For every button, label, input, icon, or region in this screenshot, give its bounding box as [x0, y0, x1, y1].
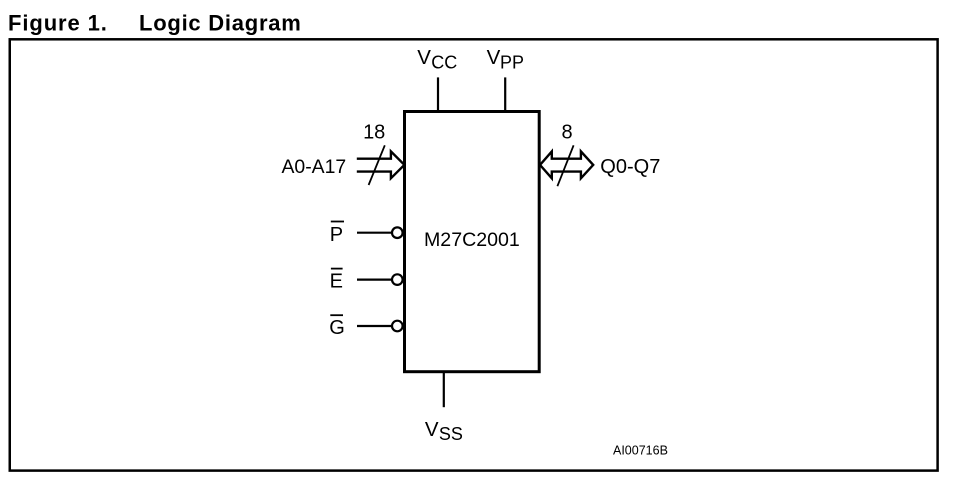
svg-text:Logic Diagram: Logic Diagram: [139, 11, 302, 36]
svg-text:SS: SS: [439, 424, 463, 444]
wire VPP lead: [504, 77, 506, 112]
svg-text:CC: CC: [431, 52, 457, 72]
bus Q0-Q7 double block arrow: [540, 151, 593, 178]
input G overbar: [330, 314, 343, 316]
EPROM U1 body: [405, 112, 540, 372]
svg-text:E: E: [330, 270, 343, 292]
svg-text:A0-A17: A0-A17: [282, 156, 347, 178]
bus A0-A17 slash: [369, 145, 385, 185]
svg-text:Figure 1.: Figure 1.: [8, 11, 108, 36]
svg-text:PP: PP: [500, 52, 524, 72]
wire VCC lead: [437, 77, 439, 112]
svg-text:18: 18: [363, 121, 385, 143]
inversion bubble G: [392, 321, 403, 332]
inversion bubble E: [392, 274, 403, 285]
svg-text:G: G: [329, 317, 345, 339]
wire E input: [357, 279, 391, 281]
svg-text:P: P: [330, 224, 343, 246]
input E overbar: [331, 268, 343, 270]
bus Q0-Q7 slash: [557, 145, 573, 186]
svg-text:8: 8: [561, 121, 572, 143]
svg-text:Q0-Q7: Q0-Q7: [600, 156, 660, 178]
ground pin VSS label: [425, 418, 463, 444]
svg-text:V: V: [417, 46, 431, 69]
wire VSS lead: [443, 372, 445, 408]
svg-text:V: V: [487, 46, 501, 69]
wire G input: [357, 325, 391, 327]
input P overbar: [331, 221, 344, 223]
svg-text:AI00716B: AI00716B: [613, 444, 668, 458]
svg-text:V: V: [425, 418, 439, 441]
bus A0-A17 block arrow: [357, 151, 405, 178]
power pin VPP label: [487, 46, 524, 72]
inversion bubble P: [392, 227, 403, 238]
svg-text:M27C2001: M27C2001: [424, 229, 520, 251]
wire P input: [357, 232, 391, 234]
power pin VCC label: [417, 46, 457, 72]
